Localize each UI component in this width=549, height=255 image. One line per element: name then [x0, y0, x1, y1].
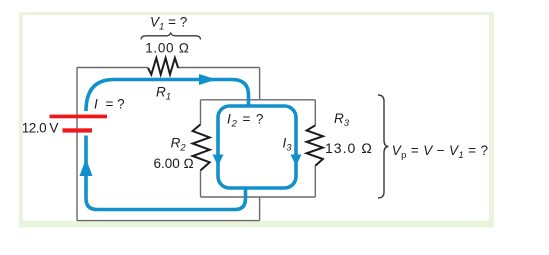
wire top-left segment — [77, 67, 148, 69]
arrowhead current I on top wire — [199, 74, 217, 85]
blue current path: battery top to R1 and down into inner loop — [86, 80, 249, 112]
svg-text:12.0 V: 12.0 V — [22, 121, 59, 136]
svg-text:13.0 Ω: 13.0 Ω — [325, 140, 373, 156]
arrowhead return current up into battery — [80, 159, 93, 177]
wire inner right upper — [314, 100, 316, 126]
battery short plate — [63, 128, 93, 132]
battery long plate — [50, 115, 108, 119]
resistor R3 zigzag — [307, 125, 323, 166]
wire inner bottom — [201, 196, 316, 198]
blue inner loop rounded rectangle — [218, 106, 296, 188]
wire inner top — [201, 99, 316, 101]
arrowhead current I3 on inner loop right — [291, 155, 302, 167]
arrowhead current I2 on inner loop left — [213, 155, 224, 167]
svg-text:6.00 Ω: 6.00 Ω — [154, 156, 194, 171]
wire outer bottom — [77, 220, 260, 222]
blue return path: inner loop bottom to battery bottom — [86, 136, 246, 210]
resistor R2 zigzag — [193, 124, 210, 170]
green frame — [19, 12, 494, 228]
overbrace above 1.00 ohm — [141, 33, 201, 40]
inner box white fill (hides outer right wire) — [201, 100, 316, 197]
right curly brace — [378, 95, 389, 198]
resistor R1 zigzag — [148, 58, 178, 75]
wire top-right segment — [178, 67, 259, 69]
wire outer left side — [76, 68, 78, 221]
wire outer right side — [259, 68, 261, 221]
wire inner right lower — [314, 166, 316, 197]
svg-text:1.00 Ω: 1.00 Ω — [145, 41, 190, 56]
wire inner left lower — [200, 170, 202, 197]
wire inner left upper — [200, 100, 202, 125]
